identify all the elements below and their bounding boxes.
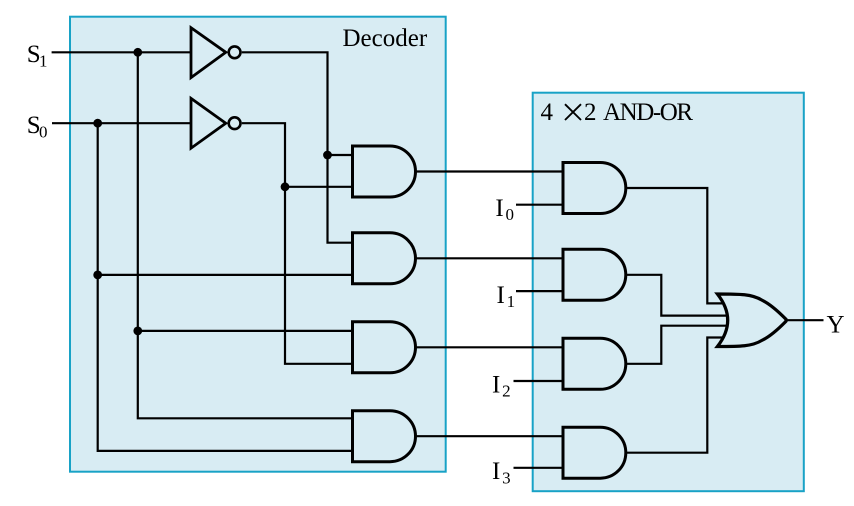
wire I2 lead-in	[514, 380, 564, 382]
wire Y output	[786, 319, 824, 321]
wire S1 branch down to AND4 top input	[138, 52, 353, 418]
wire S1 to AND3 top input	[138, 330, 353, 332]
inverter U1 (S1 NOT gate)	[191, 28, 241, 78]
svg-text:1: 1	[507, 292, 515, 311]
AND gate G4 (decoder, S1S0)	[353, 411, 416, 462]
svg-text:2: 2	[584, 99, 597, 126]
wire S1 lead-in	[52, 51, 191, 53]
AND gate G1 (decoder, S1'S0')	[353, 146, 416, 197]
svg-text:4: 4	[541, 99, 554, 126]
junction dot S0 branch	[93, 119, 102, 128]
wire I3 lead-in	[514, 467, 564, 469]
wire S1' to AND1 top input	[328, 154, 353, 156]
AND gate G2 (decoder, S1'S0)	[353, 233, 416, 284]
wire S0' to AND1 bottom input	[285, 186, 353, 188]
wire S0' from inverter U2 down to AND3 bottom input	[242, 123, 353, 364]
svg-text:AND-OR: AND-OR	[603, 99, 693, 126]
wire I1 lead-in	[516, 290, 563, 292]
wire AND D output to OR input 4	[626, 338, 724, 453]
wire decoder G1 output to AND A top input	[416, 170, 564, 172]
junction dot S1 branch	[133, 48, 142, 57]
4x2 AND-OR block	[533, 93, 804, 492]
wire S1' from inverter U1 down to AND2 top input	[242, 52, 353, 242]
svg-text:I: I	[497, 282, 505, 309]
svg-text:I: I	[492, 372, 500, 399]
wire I0 lead-in	[516, 204, 563, 206]
wire S0 branch down to AND4 bottom input	[98, 123, 353, 451]
svg-text:3: 3	[502, 468, 511, 487]
AND gate B (I1)	[563, 249, 626, 300]
wire AND B output to OR input 2	[626, 275, 728, 316]
svg-text:I: I	[492, 458, 500, 485]
AND-OR block label	[541, 99, 694, 126]
AND gate G3 (decoder, S1S0')	[353, 322, 416, 373]
svg-text:0: 0	[39, 122, 48, 141]
junction dot S0' to AND1	[281, 182, 290, 191]
wire decoder G4 output to AND D top input	[416, 435, 564, 437]
wire decoder G3 output to AND C top input	[416, 346, 564, 348]
input S1 label	[27, 41, 48, 70]
junction dot S0 to AND2	[93, 271, 102, 280]
junction dot S1' to AND1	[323, 151, 332, 160]
svg-text:0: 0	[506, 205, 515, 224]
decoder block	[70, 17, 446, 472]
svg-text:I: I	[495, 195, 503, 222]
inverter U2 (S0 NOT gate)	[191, 98, 241, 148]
svg-text:Y: Y	[827, 312, 845, 339]
wire AND C output to OR input 3	[626, 326, 728, 364]
input I3 label	[492, 458, 511, 487]
wire decoder G2 output to AND B top input	[416, 257, 564, 259]
input I2 label	[492, 372, 511, 401]
input S0 label	[27, 112, 48, 141]
svg-text:1: 1	[39, 51, 48, 70]
AND gate C (I2)	[563, 338, 626, 389]
svg-text:2: 2	[502, 382, 511, 401]
AND gate D (I3)	[563, 427, 626, 478]
OR gate U3	[717, 294, 786, 347]
svg-text:Decoder: Decoder	[343, 25, 428, 52]
input I1 label	[497, 282, 516, 311]
junction dot S1 to AND3	[133, 327, 142, 336]
input I0 label	[495, 195, 514, 224]
wire AND A output to OR input 1	[626, 188, 724, 303]
wire S0 lead-in	[52, 122, 191, 124]
AND gate A (I0)	[563, 163, 626, 214]
wire S0 to AND2 bottom input	[98, 274, 353, 276]
